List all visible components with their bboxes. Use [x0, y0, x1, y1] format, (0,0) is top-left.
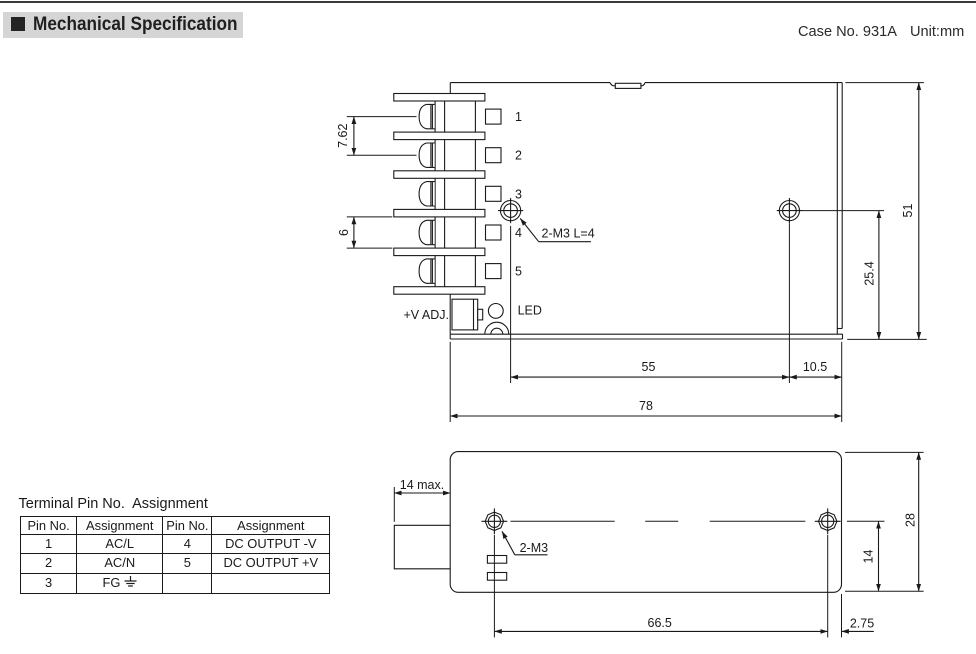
pin pad square 3 [486, 186, 502, 201]
terminal screw 4 [419, 220, 435, 244]
pin pad square 2 [486, 148, 502, 163]
svg-text:2-M3 L=4: 2-M3 L=4 [542, 227, 595, 241]
terminal fin 2 [394, 132, 485, 140]
dim 55 extension from hole A [510, 226, 512, 383]
terminal fin 6 [394, 287, 485, 295]
terminal pin table [20, 516, 330, 594]
pin pad square 4 [486, 225, 502, 240]
svg-text:10.5: 10.5 [803, 360, 827, 374]
svg-text:2.75: 2.75 [850, 617, 874, 631]
dim 7.62 line [353, 117, 355, 156]
svg-text:14 max.: 14 max. [400, 478, 444, 492]
terminal screw 1 [419, 104, 435, 128]
terminal fin 4 [394, 209, 485, 217]
terminal block protrusion [394, 525, 450, 569]
terminal fin 5 [394, 248, 485, 256]
leader 2-M3 [502, 531, 548, 555]
dim 25.4 extension from hole B [802, 210, 884, 212]
pin pad square 5 [486, 264, 502, 279]
dim 78 line [450, 415, 842, 417]
terminal body vertical line b [444, 101, 446, 287]
bottom dimple arcs [485, 322, 509, 334]
dim 2.75 line [842, 630, 874, 632]
svg-text:51: 51 [901, 204, 915, 218]
terminal screw 3 [419, 182, 435, 206]
vent slot 2 [487, 573, 506, 581]
dim 7.62 extension lines [347, 116, 417, 118]
terminal screw 5 [419, 259, 435, 283]
mounting hole D (side view right) [815, 508, 841, 534]
mounting hole C (side view left) [482, 508, 508, 534]
case right edge [836, 83, 838, 335]
dim 78 extension left [449, 342, 451, 422]
dim 66.5 line [494, 630, 827, 632]
centerline segment 1 [511, 520, 615, 522]
dim 2.75 extension [841, 594, 843, 637]
dim 25.4 line [878, 211, 880, 340]
cover flange right edge [841, 83, 843, 329]
case body outline [450, 452, 841, 593]
dim 55 line [511, 376, 790, 378]
svg-text:7.62: 7.62 [336, 123, 350, 147]
dim 51 extension top [845, 82, 924, 84]
mounting hole B (top view right) [777, 198, 802, 223]
bottom plate top line [450, 333, 842, 335]
svg-text:1: 1 [515, 110, 522, 124]
svg-text:78: 78 [639, 399, 653, 413]
dim 78 extension right [841, 342, 843, 422]
terminal body vertical line a [434, 101, 436, 287]
dim 14 line [878, 521, 880, 591]
svg-text:2: 2 [515, 149, 522, 163]
centerline segment 2 [710, 520, 806, 522]
terminal screw 2 [419, 143, 435, 167]
bottom plate bottom line [450, 338, 842, 340]
terminal pin table title [19, 496, 208, 512]
vent slot 1 [487, 556, 506, 564]
case number note [798, 24, 964, 40]
svg-text:66.5: 66.5 [648, 616, 672, 630]
svg-text:6: 6 [337, 229, 351, 236]
top notch lower line [610, 83, 645, 86]
top horizontal rule [0, 1, 976, 3]
case left edge lower segment [449, 294, 451, 334]
svg-text:28: 28 [904, 513, 918, 527]
bottom plate left cap [449, 334, 451, 339]
centerline dash [645, 520, 678, 522]
svg-text:2-M3: 2-M3 [520, 541, 549, 555]
case top edge left segment [450, 82, 610, 84]
svg-text:5: 5 [515, 265, 522, 279]
terminal body vertical line c [474, 101, 476, 287]
dim 14max line [394, 492, 450, 494]
dim 14max extension [393, 487, 395, 522]
LED hole [488, 304, 503, 319]
terminal fin 3 [394, 171, 485, 179]
leader 2-M3 L=4 [520, 218, 591, 241]
dim 28 extension top [845, 451, 924, 453]
dim 14 extension [847, 520, 885, 522]
flange bottom connector [837, 328, 842, 330]
bottom plate right cap [842, 334, 844, 339]
potentiometer +V ADJ [452, 299, 483, 330]
svg-text:25.4: 25.4 [863, 261, 877, 285]
dim 6 extension lines [347, 216, 393, 218]
svg-text:3: 3 [515, 187, 522, 201]
svg-text:+V ADJ.: +V ADJ. [403, 308, 449, 322]
dim 51 line [918, 83, 920, 340]
mounting hole A (top view left) [498, 198, 523, 223]
section header: Mechanical Specification [3, 12, 243, 38]
case top edge right segment [645, 82, 842, 84]
case left edge upper segment [449, 83, 451, 94]
dim 66.5 extension left [493, 535, 495, 637]
terminal fin 1 [394, 94, 485, 102]
pin pad square 1 [486, 109, 502, 124]
dim 6 line [353, 217, 355, 248]
dim 55 extension from hole B [788, 223, 790, 383]
dim 51/25.4 extension bottom [847, 338, 927, 340]
svg-text:55: 55 [642, 360, 656, 374]
dim 28 line [918, 452, 920, 591]
top notch tab rectangle [615, 83, 641, 88]
svg-text:14: 14 [862, 550, 876, 564]
svg-text:LED: LED [518, 304, 542, 318]
dim 28 extension bottom [845, 590, 924, 592]
svg-text:4: 4 [515, 226, 522, 240]
dim 66.5 extension right [827, 535, 829, 637]
dim 10.5 line [789, 376, 841, 378]
